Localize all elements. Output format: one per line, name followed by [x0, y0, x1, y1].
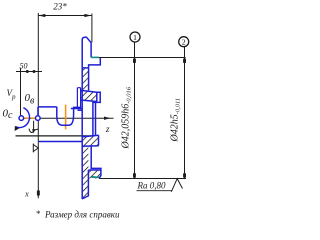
roughness shelf line	[137, 190, 172, 192]
hatch bottom rim	[88, 170, 101, 179]
svg-text:23*: 23*	[53, 2, 67, 12]
lower flange slanted piece	[82, 135, 98, 137]
part web band edges upper	[82, 68, 89, 199]
hub lower ledge	[71, 108, 82, 110]
measuring square top 2	[183, 59, 186, 63]
dimension 23* dimension line with arrows	[38, 14, 91, 17]
svg-text:Ra 0,80: Ra 0,80	[137, 180, 166, 190]
balloon 2 leader and dimension line	[184, 47, 186, 179]
dimension 23* right extension line	[91, 14, 93, 43]
lower hub blue line	[39, 141, 83, 143]
hub top line	[38, 106, 57, 108]
svg-text:Ø42h5-0,011: Ø42h5-0,011	[170, 98, 182, 143]
lower chuck black line	[16, 135, 93, 137]
hub lower ledge second	[78, 109, 83, 111]
support flag symbol	[33, 144, 38, 153]
hatch flange parallelogram lower	[82, 135, 98, 146]
svg-text:z: z	[105, 125, 110, 135]
hatch web band lower	[82, 137, 88, 200]
wheel outline	[82, 37, 100, 68]
measuring square bottom 2	[183, 173, 186, 177]
svg-text:x: x	[24, 189, 29, 199]
svg-text:*: *	[36, 209, 41, 219]
flange right steps upper	[80, 90, 100, 136]
teal ground surface top	[91, 56, 99, 58]
svg-text:0в: 0в	[25, 92, 36, 107]
axis z arrowhead	[104, 117, 111, 120]
balloon 1 circle	[130, 32, 140, 42]
part hub and groove profile	[38, 107, 82, 125]
infeed down arrow	[32, 121, 35, 134]
part web band edges lower and bottom rim	[82, 135, 101, 199]
measuring square top 1	[133, 59, 136, 63]
node Os circle	[19, 116, 24, 121]
slot verticals	[77, 88, 80, 109]
node Ov circle	[36, 116, 41, 121]
hub left vertical	[37, 107, 39, 116]
dimension 50 extension line	[20, 68, 22, 116]
svg-text:2: 2	[182, 38, 186, 47]
svg-text:Ø42,059h6-0,016: Ø42,059h6-0,016	[121, 86, 133, 149]
lower rim steps	[91, 146, 101, 178]
teal ground surface bottom wedge	[92, 176, 100, 178]
svg-text:1: 1	[133, 33, 137, 42]
top reference surface line	[99, 57, 186, 59]
orange grinding wheel line in groove	[65, 105, 67, 130]
node Os rotation arc	[16, 108, 30, 128]
hatch web band upper	[82, 68, 89, 90]
dimension 23* left extension line	[37, 13, 39, 198]
x axis terminal square at bottom	[37, 191, 40, 196]
wavy rest line	[29, 129, 38, 133]
measuring square bottom 1	[133, 173, 136, 177]
roughness symbol	[171, 179, 182, 192]
bottom reference surface line	[99, 178, 186, 180]
node Os rotation arrowhead	[15, 126, 20, 131]
balloon 2 circle	[179, 37, 189, 47]
svg-text:50: 50	[20, 61, 28, 70]
orange spindle segment between centres	[25, 117, 36, 119]
dimension 50 dimension line with dot arrows	[16, 70, 42, 73]
balloon 1 leader and dimension line	[134, 42, 136, 179]
groove U profile	[57, 107, 80, 125]
axis z line	[24, 117, 114, 119]
hatch flange parallelogram upper	[80, 90, 96, 101]
svg-text:Размер для справки: Размер для справки	[44, 210, 120, 220]
svg-text:0с: 0с	[3, 108, 14, 121]
svg-text:Vp: Vp	[7, 88, 17, 101]
